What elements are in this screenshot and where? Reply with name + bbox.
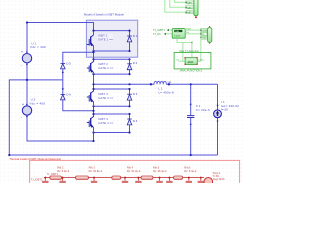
svg-text:Rv: 6.3e-3: Rv: 6.3e-3	[184, 169, 197, 173]
transistor IGBT1	[87, 35, 94, 51]
block SM2 scope (vertical)	[208, 26, 212, 44]
wire: rail e4-a4	[94, 132, 130, 134]
svg-text:TJ_IGBT1: TJ_IGBT1	[153, 28, 165, 32]
wire: gate signal 1 (green)	[175, 0, 186, 2]
svg-text:GATE 2 ==: GATE 2 ==	[98, 66, 113, 70]
svg-text:TJAV: TJAV	[175, 30, 180, 33]
wire: rail c2-k2	[94, 58, 130, 60]
clamp diode D5	[61, 63, 66, 69]
svg-text:GAT3: GAT3	[187, 11, 193, 14]
wire: JAVA left pin	[179, 60, 186, 62]
wire: phase output to inductor and load	[94, 83, 218, 85]
wire: U1 minus down to midpoint junction	[26, 63, 28, 80]
wire: rail e2-a2	[94, 73, 130, 75]
wire: midpoint to U2 plus	[26, 80, 28, 106]
transistor IGBT3	[87, 91, 94, 106]
wire: clamp diode D5 top to S1/S2 node	[63, 52, 94, 63]
svg-text:D 5: D 5	[66, 61, 71, 65]
voltage source U2	[21, 102, 32, 119]
wire: SM1 bottom to Max TJ box	[177, 38, 192, 57]
svg-text:Vdc = 400: Vdc = 400	[30, 45, 46, 49]
svg-text:Rv: 51.2e-3: Rv: 51.2e-3	[127, 169, 141, 173]
svg-text:Vdc = 400: Vdc = 400	[29, 101, 45, 105]
diode D3	[127, 94, 132, 100]
svg-text:Degr.Tamb: Degr.Tamb	[213, 178, 225, 181]
clamp diode D6	[61, 94, 66, 100]
svg-text:TJavP: TJavP	[174, 35, 181, 37]
transistor IGBT4	[87, 117, 94, 133]
svg-text:GAT1: GAT1	[187, 1, 193, 4]
wire: inductor L1 coil	[154, 81, 166, 84]
thermal capacitor drops	[42, 178, 204, 183]
svg-text:D 3: D 3	[133, 92, 138, 96]
svg-text:Rv: 6.6e-3: Rv: 6.6e-3	[57, 169, 70, 173]
wire: gate signal 3 (green)	[165, 0, 186, 12]
wire: U1 plus to IGBT1 collector (top rail)	[27, 23, 94, 54]
svg-text:TJ_IGBT1: TJ_IGBT1	[31, 177, 43, 181]
wire: TJ_D1 to SM block	[166, 33, 172, 35]
resistor Rth4	[141, 176, 153, 179]
wire: rail e3-a3	[94, 105, 130, 107]
svg-text:Max TJ detection: Max TJ detection	[179, 49, 199, 53]
wire: gate signal 2 (green)	[170, 0, 186, 7]
wire: C1 capacitor column	[190, 84, 192, 155]
svg-text:TJM: TJM	[202, 38, 206, 40]
Max TJ detection enclosure	[174, 52, 211, 69]
svg-text:PD: PD	[202, 34, 205, 36]
wire: IGBT column vertical segments	[93, 31, 95, 133]
wire: midpoint to D6 cathode	[62, 80, 64, 95]
wire: rail c1-k1	[94, 30, 130, 32]
svg-text:PIGB: PIGB	[202, 30, 208, 32]
svg-text:Pigbt: Pigbt	[186, 27, 191, 30]
junction (green)	[191, 42, 193, 44]
wire: D2 column	[129, 59, 131, 74]
block SM1 (power loss)	[172, 29, 185, 39]
svg-text:C= 20e-6: C= 20e-6	[196, 108, 210, 112]
svg-text:Model of Switch in IGBT Module: Model of Switch in IGBT Module	[84, 13, 124, 17]
wire: I1 source column	[217, 84, 219, 155]
capacitor C1	[187, 115, 194, 118]
svg-text:TL_IGBT1: TL_IGBT1	[47, 173, 59, 176]
wire: TJ_IGBT1 to SM block	[169, 29, 172, 31]
resistor Rth3	[112, 176, 121, 179]
svg-text:JAVA_FUNCTION 1: JAVA_FUNCTION 1	[179, 69, 203, 73]
wire: midpoint left branch to bottom return rail	[9, 80, 217, 155]
pin label P1 (scope block)	[200, 29, 207, 32]
voltage source U1	[21, 50, 32, 67]
svg-text:GATE 1 ==: GATE 1 ==	[98, 37, 113, 41]
wire: rail c4-k4	[94, 113, 130, 115]
svg-text:TJ_D1: TJ_D1	[153, 32, 161, 36]
svg-text:D 1: D 1	[133, 34, 138, 38]
wire: U2 minus to module bottom node	[27, 115, 94, 141]
port arrow TJ_IGBT1	[167, 29, 169, 31]
svg-text:Rv: 52.8e-3: Rv: 52.8e-3	[89, 169, 103, 173]
gate signal block (top right, cut off)	[194, 0, 198, 18]
module enclosure box	[86, 20, 137, 57]
pin label GATE2	[186, 6, 194, 9]
wire: D6 anode to S3/S4 node	[63, 100, 94, 111]
wire: rail e1-a1	[94, 50, 130, 52]
resistor Rth2	[76, 176, 89, 179]
transistor IGBT2	[87, 62, 94, 75]
svg-text:D 4: D 4	[133, 119, 138, 123]
diode D2	[127, 64, 132, 70]
thermal enclosure box	[30, 160, 240, 190]
pin label GATE3	[186, 11, 194, 14]
diode D1	[127, 36, 132, 42]
resistor Rth5	[174, 176, 183, 179]
wire: rail c3-k3	[94, 88, 130, 90]
pin label P3 (scope block)	[200, 36, 207, 39]
wire: thermal chain	[44, 177, 204, 179]
svg-text:Ua: Ua	[168, 80, 172, 84]
wire: TJmax output up to scope	[197, 38, 201, 62]
wire: D3 column	[129, 89, 131, 106]
wire: branch into JAVA block left pin	[182, 42, 184, 61]
svg-text:D 6: D 6	[66, 92, 71, 96]
svg-text:f= 50: f= 50	[221, 108, 228, 112]
port arrow TJ_D1	[164, 33, 166, 35]
resistor Rth1	[50, 176, 62, 179]
pin label P2 (scope block)	[200, 32, 207, 35]
pin label GATE1	[186, 1, 194, 4]
svg-text:JAVA: JAVA	[187, 60, 193, 64]
svg-text:TJMax: TJMax	[198, 60, 204, 62]
svg-text:GAT2: GAT2	[187, 6, 193, 9]
temperature source Temp1	[204, 178, 213, 187]
svg-text:Rv: 46.4e-3: Rv: 46.4e-3	[153, 169, 167, 173]
thermal node dots	[44, 177, 202, 179]
wire: D1 column	[129, 31, 131, 51]
block JAVA function	[184, 57, 197, 65]
wire: Pigbt output	[185, 29, 201, 31]
svg-text:D 2: D 2	[133, 61, 138, 65]
diode D4	[127, 119, 132, 125]
wire: D4 column	[129, 114, 131, 133]
wire: Pd output	[185, 33, 201, 35]
wire: midpoint to clamp diode column	[27, 79, 63, 81]
svg-text:GATE 3 ==: GATE 3 ==	[98, 96, 113, 100]
svg-text:L= 400e-6: L= 400e-6	[158, 90, 174, 94]
wire: D5 anode to midpoint	[62, 69, 64, 80]
current source I1	[214, 110, 222, 118]
svg-text:GATE 4 ==: GATE 4 ==	[98, 121, 113, 125]
